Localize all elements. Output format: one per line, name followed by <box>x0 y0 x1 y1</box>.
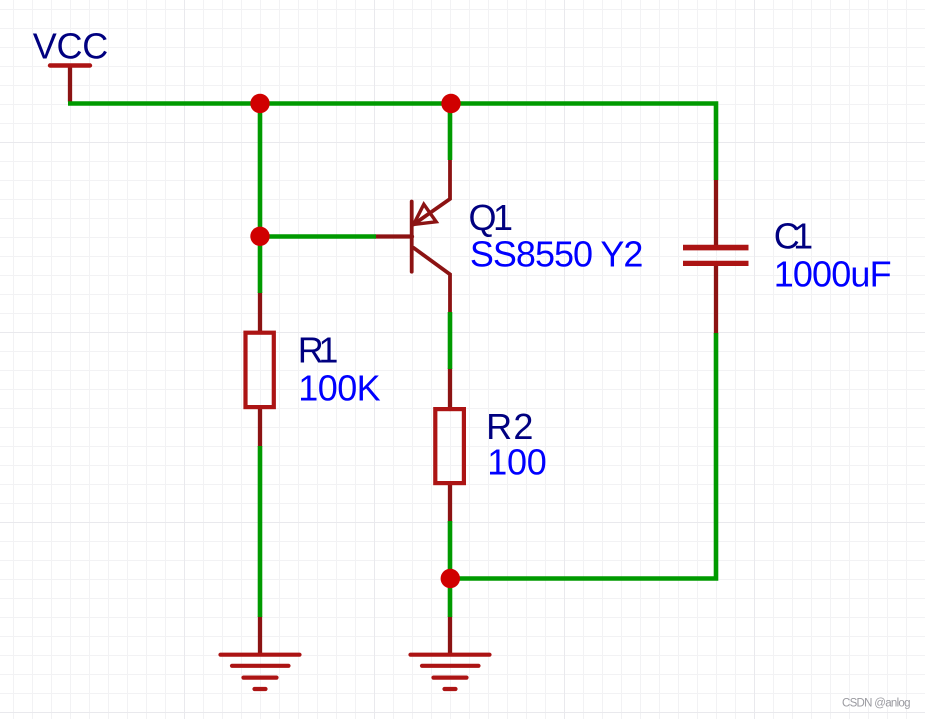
svg-text:SS8550 Y2: SS8550 Y2 <box>470 234 644 275</box>
svg-text:100K: 100K <box>298 367 381 408</box>
svg-text:CSDN @anlog: CSDN @anlog <box>842 698 911 710</box>
svg-text:VCC: VCC <box>33 26 109 67</box>
svg-text:C1: C1 <box>774 216 813 257</box>
svg-text:100: 100 <box>487 441 547 482</box>
svg-text:1000uF: 1000uF <box>774 254 892 295</box>
svg-text:R1: R1 <box>298 330 339 371</box>
svg-text:Q1: Q1 <box>469 197 514 238</box>
